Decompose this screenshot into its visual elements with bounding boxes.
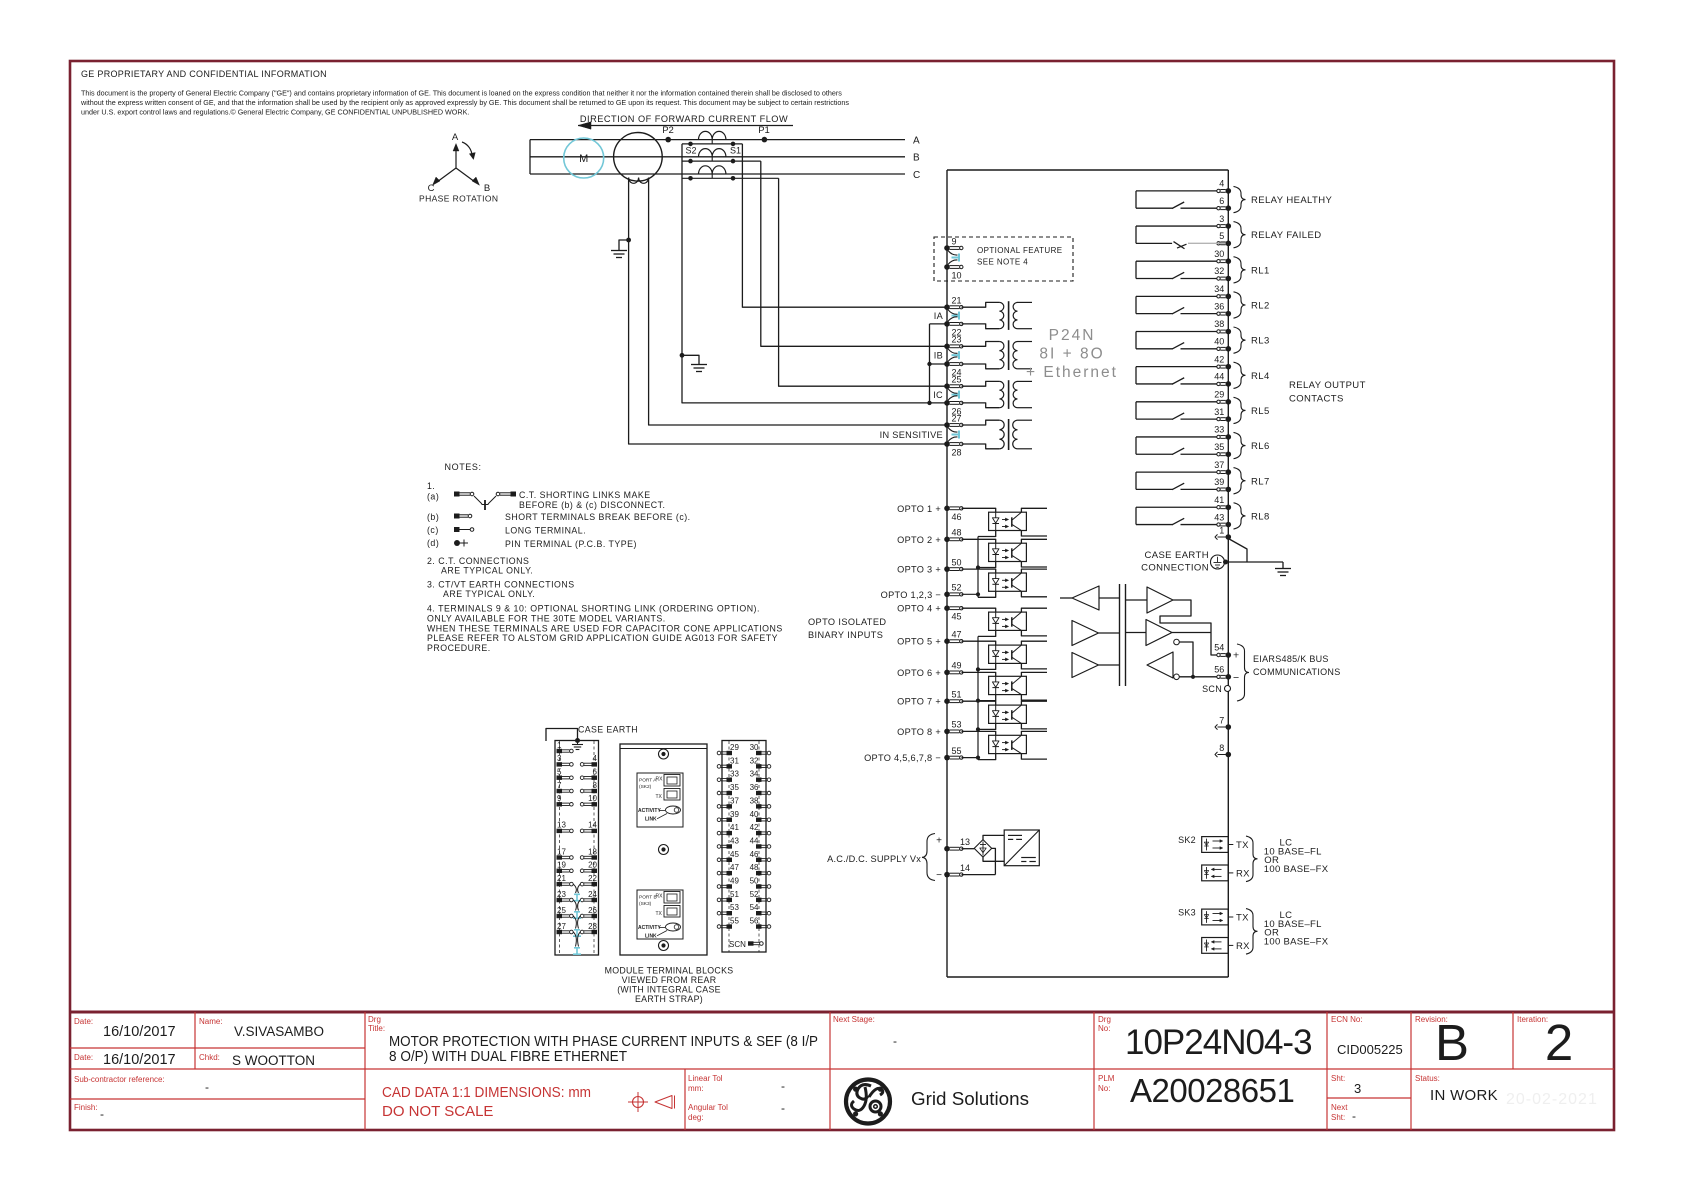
svg-text:Chkd:: Chkd:: [199, 1053, 220, 1062]
svg-text:B: B: [1435, 1014, 1469, 1071]
svg-text:52: 52: [750, 890, 759, 899]
svg-text:CONTACTS: CONTACTS: [1289, 394, 1344, 405]
svg-text:OPTO 5 +: OPTO 5 +: [897, 637, 941, 647]
svg-text:-: -: [100, 1107, 104, 1121]
svg-text:5: 5: [557, 768, 562, 777]
svg-text:SEE NOTE 4: SEE NOTE 4: [977, 258, 1028, 267]
svg-text:25: 25: [952, 375, 962, 385]
svg-text:29: 29: [730, 743, 739, 752]
svg-text:3: 3: [1354, 1081, 1361, 1096]
svg-text:26: 26: [588, 906, 597, 915]
svg-text:10: 10: [588, 794, 597, 803]
svg-text:7: 7: [557, 781, 562, 790]
svg-text:42: 42: [750, 823, 759, 832]
svg-text:54: 54: [1214, 643, 1224, 653]
svg-text:21: 21: [952, 296, 962, 306]
svg-text:S2: S2: [685, 146, 696, 156]
svg-text:Date:: Date:: [74, 1017, 93, 1026]
svg-text:RELAY HEALTHY: RELAY HEALTHY: [1251, 195, 1332, 206]
svg-text:IB: IB: [934, 351, 943, 361]
svg-text:Sub-contractor reference:: Sub-contractor reference:: [74, 1075, 165, 1084]
svg-text:EIARS485/K BUS: EIARS485/K BUS: [1253, 654, 1329, 664]
svg-text:Next: Next: [1331, 1103, 1348, 1112]
svg-text:-: -: [1352, 1109, 1356, 1123]
svg-text:V.SIVASAMBO: V.SIVASAMBO: [234, 1024, 324, 1039]
svg-text:37: 37: [730, 796, 739, 805]
svg-text:SHORT TERMINALS BREAK BEFORE (: SHORT TERMINALS BREAK BEFORE (c).: [505, 512, 691, 522]
svg-text:51: 51: [952, 690, 962, 700]
svg-text:Next Stage:: Next Stage:: [833, 1015, 875, 1024]
svg-text:13: 13: [557, 821, 566, 830]
svg-text:under U.S. export control laws: under U.S. export control laws and regul…: [81, 108, 469, 117]
svg-text:30: 30: [1214, 249, 1224, 259]
svg-text:DO NOT SCALE: DO NOT SCALE: [382, 1103, 493, 1120]
svg-text:Sht:: Sht:: [1331, 1074, 1345, 1083]
svg-text:PLEASE REFER TO ALSTOM GRI: PLEASE REFER TO ALSTOM GRID APPLICATION …: [427, 633, 778, 643]
svg-text:OPTO 1,2,3 −: OPTO 1,2,3 −: [881, 590, 941, 600]
svg-text:39: 39: [730, 810, 739, 819]
svg-text:GE PROPRIETARY AND CONFIDENTIA: GE PROPRIETARY AND CONFIDENTIAL INFORMAT…: [81, 69, 327, 79]
svg-text:32: 32: [1214, 266, 1224, 276]
svg-text:No:: No:: [1098, 1084, 1110, 1093]
svg-text:48: 48: [952, 528, 962, 538]
svg-text:CASE EARTH: CASE EARTH: [1144, 550, 1209, 561]
svg-text:RL8: RL8: [1251, 511, 1270, 522]
svg-text:IN SENSITIVE: IN SENSITIVE: [880, 430, 943, 440]
svg-text:1.: 1.: [427, 481, 435, 491]
svg-text:WHEN THESE TERMINALS ARE U: WHEN THESE TERMINALS ARE USED FOR CAPACI…: [427, 624, 783, 634]
svg-text:deg:: deg:: [688, 1113, 704, 1122]
svg-text:(WITH INTEGRAL CASE: (WITH INTEGRAL CASE: [617, 985, 721, 995]
svg-text:29: 29: [1214, 390, 1224, 400]
svg-text:22: 22: [588, 874, 597, 883]
svg-text:+: +: [936, 836, 942, 847]
svg-text:14: 14: [588, 821, 597, 830]
svg-text:-: -: [781, 1101, 785, 1115]
svg-text:LINK: LINK: [645, 817, 657, 823]
svg-text:PHASE ROTATION: PHASE ROTATION: [419, 194, 498, 204]
svg-text:A: A: [913, 136, 920, 147]
svg-text:ECN No:: ECN No:: [1331, 1015, 1363, 1024]
svg-text:CID005225: CID005225: [1337, 1042, 1403, 1057]
svg-text:Grid Solutions: Grid Solutions: [911, 1088, 1029, 1109]
svg-text:20: 20: [588, 861, 597, 870]
svg-text:S1: S1: [730, 146, 741, 156]
svg-text:SK2: SK2: [1178, 835, 1196, 845]
svg-text:48: 48: [750, 863, 759, 872]
svg-text:23: 23: [952, 335, 962, 345]
svg-text:35: 35: [730, 783, 739, 792]
svg-text:49: 49: [730, 877, 739, 886]
svg-text:37: 37: [1214, 460, 1224, 470]
svg-text:14: 14: [960, 863, 970, 873]
svg-text:RL3: RL3: [1251, 336, 1270, 347]
svg-text:Status:: Status:: [1415, 1074, 1440, 1083]
svg-text:No:: No:: [1098, 1024, 1110, 1033]
svg-text:(b): (b): [427, 512, 439, 522]
svg-text:C: C: [428, 183, 435, 194]
svg-text:18: 18: [588, 847, 597, 856]
svg-text:DIRECTION OF FORWARD CURREN: DIRECTION OF FORWARD CURRENT FLOW: [580, 114, 788, 124]
svg-text:Angular Tol: Angular Tol: [688, 1103, 728, 1112]
svg-text:BEFORE (b) & (c) DISCONNECT.: BEFORE (b) & (c) DISCONNECT.: [519, 500, 665, 510]
svg-text:ARE TYPICAL ONLY.: ARE TYPICAL ONLY.: [441, 566, 533, 576]
svg-text:17: 17: [557, 847, 566, 856]
svg-text:without the express written co: without the express written consent of G…: [80, 98, 849, 107]
svg-text:45: 45: [952, 612, 962, 622]
svg-text:6: 6: [593, 768, 598, 777]
svg-text:RL1: RL1: [1251, 265, 1270, 276]
svg-text:44: 44: [1214, 372, 1224, 382]
svg-text:TX: TX: [656, 911, 663, 917]
svg-text:OPTO 6 +: OPTO 6 +: [897, 668, 941, 678]
svg-text:A20028651: A20028651: [1130, 1072, 1294, 1109]
svg-text:NOTES:: NOTES:: [445, 462, 482, 472]
svg-text:MODULE TERMINAL BLOCKS: MODULE TERMINAL BLOCKS: [605, 966, 734, 976]
svg-text:3: 3: [557, 754, 562, 763]
svg-text:27: 27: [557, 922, 566, 931]
svg-text:OPTO 1 +: OPTO 1 +: [897, 504, 941, 514]
svg-text:53: 53: [730, 903, 739, 912]
svg-text:36: 36: [1214, 301, 1224, 311]
svg-text:32: 32: [750, 756, 759, 765]
svg-text:C.T. SHORTING LINKS MAKE: C.T. SHORTING LINKS MAKE: [519, 490, 651, 500]
svg-text:51: 51: [730, 890, 739, 899]
svg-text:13: 13: [960, 837, 970, 847]
svg-text:ACTIVITY: ACTIVITY: [638, 925, 661, 931]
svg-text:10: 10: [952, 271, 962, 281]
svg-text:A.C./D.C. SUPPLY Vx: A.C./D.C. SUPPLY Vx: [827, 854, 921, 864]
svg-text:COMMUNICATIONS: COMMUNICATIONS: [1253, 667, 1341, 677]
svg-text:9: 9: [557, 794, 562, 803]
svg-text:ACTIVITY: ACTIVITY: [638, 808, 661, 814]
svg-text:6: 6: [1219, 196, 1224, 206]
svg-text:OPTO ISOLATED: OPTO ISOLATED: [808, 617, 886, 627]
svg-text:RX: RX: [1236, 868, 1250, 879]
svg-text:S WOOTTON: S WOOTTON: [232, 1053, 315, 1068]
svg-text:49: 49: [952, 661, 962, 671]
svg-text:4: 4: [1219, 179, 1224, 189]
svg-text:44: 44: [750, 836, 759, 845]
svg-text:100 BASE–FX: 100 BASE–FX: [1264, 864, 1329, 875]
svg-text:PLM: PLM: [1098, 1074, 1115, 1083]
svg-text:IA: IA: [934, 311, 944, 321]
svg-text:A: A: [452, 132, 459, 143]
svg-text:EARTH STRAP): EARTH STRAP): [635, 994, 703, 1004]
svg-text:BINARY INPUTS: BINARY INPUTS: [808, 630, 883, 640]
svg-text:54: 54: [750, 903, 759, 912]
svg-text:SCN: SCN: [729, 940, 746, 949]
svg-text:OPTO 3 +: OPTO 3 +: [897, 565, 941, 575]
svg-text:8: 8: [593, 781, 598, 790]
svg-text:RL7: RL7: [1251, 476, 1270, 487]
svg-text:40: 40: [1214, 337, 1224, 347]
svg-text:OPTO 8 +: OPTO 8 +: [897, 727, 941, 737]
svg-text:Iteration:: Iteration:: [1517, 1015, 1548, 1024]
svg-text:P1: P1: [758, 125, 770, 136]
svg-text:23: 23: [557, 890, 566, 899]
svg-text:Drg: Drg: [368, 1015, 381, 1024]
svg-text:Title:: Title:: [368, 1024, 385, 1033]
svg-text:This document is the property: This document is the property of General…: [81, 89, 842, 98]
svg-text:55: 55: [730, 917, 739, 926]
svg-text:43: 43: [730, 836, 739, 845]
svg-text:28: 28: [952, 448, 962, 458]
svg-text:31: 31: [730, 756, 739, 765]
svg-text:B: B: [484, 183, 490, 194]
svg-text:2. C.T. CONNECTIONS: 2. C.T. CONNECTIONS: [427, 556, 529, 566]
svg-text:OPTO 4,5,6,7,8 −: OPTO 4,5,6,7,8 −: [864, 753, 941, 763]
svg-text:3: 3: [1219, 214, 1224, 224]
svg-text:RX: RX: [656, 894, 664, 900]
svg-text:47: 47: [730, 863, 739, 872]
svg-text:−: −: [1233, 672, 1239, 684]
svg-text:OPTO 7 +: OPTO 7 +: [897, 697, 941, 707]
svg-text:16/10/2017: 16/10/2017: [103, 1052, 176, 1068]
svg-text:TX: TX: [1236, 840, 1249, 851]
svg-text:RL2: RL2: [1251, 301, 1270, 312]
svg-text:24: 24: [588, 890, 597, 899]
svg-text:(SK3): (SK3): [639, 901, 652, 907]
svg-text:PORT B: PORT B: [639, 895, 657, 901]
svg-text:P2: P2: [662, 125, 674, 136]
svg-text:CAD DATA 1:1 DIMENSIONS: mm: CAD DATA 1:1 DIMENSIONS: mm: [382, 1084, 591, 1101]
svg-text:39: 39: [1214, 477, 1224, 487]
svg-text:1: 1: [1219, 526, 1224, 536]
svg-text:38: 38: [1214, 319, 1224, 329]
svg-text:41: 41: [730, 823, 739, 832]
svg-text:−: −: [936, 870, 942, 881]
svg-text:IN WORK: IN WORK: [1430, 1087, 1498, 1104]
svg-text:LINK: LINK: [645, 934, 657, 940]
svg-text:ARE TYPICAL ONLY.: ARE TYPICAL ONLY.: [443, 589, 535, 599]
svg-text:P24N: P24N: [1049, 327, 1096, 344]
svg-text:55: 55: [952, 746, 962, 756]
svg-text:TX: TX: [1236, 912, 1249, 923]
svg-text:(a): (a): [427, 492, 439, 502]
svg-text:31: 31: [1214, 407, 1224, 417]
svg-text:10P24N04-3: 10P24N04-3: [1125, 1023, 1312, 1062]
svg-text:Finish:: Finish:: [74, 1103, 98, 1112]
svg-text:46: 46: [750, 850, 759, 859]
svg-text:mm:: mm:: [688, 1084, 704, 1093]
svg-text:1: 1: [557, 741, 562, 750]
svg-text:-: -: [205, 1080, 209, 1094]
svg-text:8 O/P) WITH DUAL FIBRE ETHERNE: 8 O/P) WITH DUAL FIBRE ETHERNET: [389, 1049, 627, 1065]
svg-text:CASE EARTH: CASE EARTH: [578, 725, 638, 735]
svg-text:41: 41: [1214, 495, 1224, 505]
svg-text:SK3: SK3: [1178, 908, 1196, 918]
svg-text:100 BASE–FX: 100 BASE–FX: [1264, 937, 1329, 948]
svg-text:RL4: RL4: [1251, 371, 1270, 382]
svg-text:45: 45: [730, 850, 739, 859]
svg-text:LONG TERMINAL.: LONG TERMINAL.: [505, 526, 586, 536]
svg-text:52: 52: [952, 583, 962, 593]
svg-text:40: 40: [750, 810, 759, 819]
svg-text:PIN TERMINAL (P.C.B. TYPE): PIN TERMINAL (P.C.B. TYPE): [505, 539, 637, 549]
svg-text:VIEWED FROM REAR: VIEWED FROM REAR: [622, 975, 717, 985]
svg-text:56: 56: [1214, 665, 1224, 675]
svg-text:30: 30: [750, 743, 759, 752]
svg-text:+ Ethernet: + Ethernet: [1026, 364, 1118, 381]
svg-text:2: 2: [1545, 1014, 1573, 1071]
svg-text:8: 8: [1219, 743, 1224, 753]
svg-text:OPTO 4 +: OPTO 4 +: [897, 604, 941, 614]
svg-text:7: 7: [1219, 716, 1224, 726]
svg-text:OPTO 2 +: OPTO 2 +: [897, 535, 941, 545]
svg-text:50: 50: [952, 557, 962, 567]
svg-text:M: M: [579, 153, 588, 165]
svg-text:CONNECTION: CONNECTION: [1141, 563, 1209, 574]
svg-text:Name:: Name:: [199, 1017, 223, 1026]
svg-text:OPTIONAL FEATURE: OPTIONAL FEATURE: [977, 246, 1063, 255]
svg-text:+: +: [1233, 650, 1239, 662]
svg-text:25: 25: [557, 906, 566, 915]
svg-text:RELAY OUTPUT: RELAY OUTPUT: [1289, 380, 1366, 391]
svg-text:RL5: RL5: [1251, 406, 1270, 417]
svg-text:ONLY AVAILABLE FOR THE 30T: ONLY AVAILABLE FOR THE 30TE MODEL VARIAN…: [427, 614, 666, 624]
svg-text:42: 42: [1214, 354, 1224, 364]
svg-text:28: 28: [588, 922, 597, 931]
svg-text:33: 33: [1214, 425, 1224, 435]
svg-text:RL6: RL6: [1251, 441, 1270, 452]
svg-text:5: 5: [1219, 231, 1224, 241]
svg-text:Drg: Drg: [1098, 1015, 1111, 1024]
svg-text:RX: RX: [656, 777, 664, 783]
svg-text:4: 4: [593, 754, 598, 763]
svg-text:47: 47: [952, 630, 962, 640]
svg-text:8I + 8O: 8I + 8O: [1039, 346, 1104, 363]
svg-text:(SK2): (SK2): [639, 784, 652, 790]
svg-text:34: 34: [1214, 284, 1224, 294]
svg-text:SCN: SCN: [1202, 684, 1222, 694]
svg-text:TX: TX: [656, 794, 663, 800]
svg-text:PROCEDURE.: PROCEDURE.: [427, 643, 491, 653]
svg-text:B: B: [913, 153, 920, 164]
svg-text:43: 43: [1214, 512, 1224, 522]
svg-text:21: 21: [557, 874, 566, 883]
svg-text:35: 35: [1214, 442, 1224, 452]
svg-text:RELAY FAILED: RELAY FAILED: [1251, 230, 1321, 241]
svg-text:50: 50: [750, 877, 759, 886]
svg-text:RX: RX: [1236, 941, 1250, 952]
svg-text:C: C: [913, 170, 920, 181]
svg-text:34: 34: [750, 770, 759, 779]
svg-text:IC: IC: [933, 390, 943, 400]
svg-text:3. CT/VT EARTH CONNECTIONS: 3. CT/VT EARTH CONNECTIONS: [427, 580, 575, 590]
svg-text:33: 33: [730, 770, 739, 779]
svg-text:-: -: [781, 1079, 785, 1093]
svg-text:PORT A: PORT A: [639, 778, 657, 784]
svg-text:36: 36: [750, 783, 759, 792]
svg-text:Linear Tol: Linear Tol: [688, 1074, 723, 1083]
svg-text:(c): (c): [427, 525, 439, 535]
svg-text:46: 46: [952, 512, 962, 522]
svg-text:19: 19: [557, 861, 566, 870]
svg-text:-: -: [893, 1034, 897, 1048]
svg-text:53: 53: [952, 720, 962, 730]
svg-text:9: 9: [952, 236, 957, 246]
svg-text:20-02-2021: 20-02-2021: [1506, 1091, 1598, 1108]
svg-text:38: 38: [750, 796, 759, 805]
svg-text:16/10/2017: 16/10/2017: [103, 1024, 176, 1040]
svg-text:27: 27: [952, 413, 962, 423]
svg-text:(d): (d): [427, 538, 439, 548]
svg-text:MOTOR PROTECTION WITH PHASE CU: MOTOR PROTECTION WITH PHASE CURRENT INPU…: [389, 1034, 818, 1050]
svg-text:56: 56: [750, 917, 759, 926]
svg-text:4. TERMINALS 9 & 10: OPTI: 4. TERMINALS 9 & 10: OPTIONAL SHORTING L…: [427, 604, 760, 614]
svg-text:Date:: Date:: [74, 1053, 93, 1062]
svg-text:Sht:: Sht:: [1331, 1113, 1345, 1122]
